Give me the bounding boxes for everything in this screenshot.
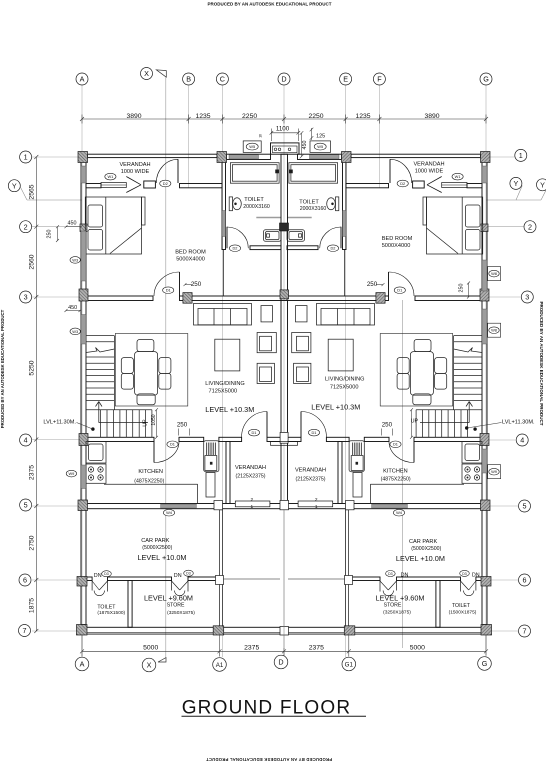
svg-text:1000 WIDE: 1000 WIDE <box>415 168 444 174</box>
counter <box>104 483 198 485</box>
label ellipse texts <box>68 144 496 576</box>
kitchen sink <box>86 442 106 464</box>
center column row4 <box>280 432 288 443</box>
svg-text:(4875X2250): (4875X2250) <box>381 477 411 483</box>
svg-text:D3: D3 <box>186 572 191 576</box>
svg-text:D2: D2 <box>331 246 336 251</box>
svg-text:2565: 2565 <box>29 184 36 199</box>
svg-text:1: 1 <box>519 151 523 160</box>
svg-text:F: F <box>377 75 382 84</box>
svg-text:W8: W8 <box>491 328 497 333</box>
left dimension chain <box>35 157 37 631</box>
svg-text:D1: D1 <box>170 442 175 447</box>
svg-text:X: X <box>147 661 152 670</box>
svg-text:6: 6 <box>523 576 527 585</box>
bedside rail <box>142 197 146 225</box>
svg-text:KITCHEN: KITCHEN <box>138 469 163 475</box>
svg-text:TOILET: TOILET <box>452 603 471 609</box>
svg-text:(1875X1500): (1875X1500) <box>97 610 125 616</box>
svg-text:LEVEL +10.3M: LEVEL +10.3M <box>311 402 360 411</box>
svg-text:A1: A1 <box>216 662 224 669</box>
single sofa B <box>257 363 274 383</box>
svg-text:W5: W5 <box>317 144 323 149</box>
svg-text:250: 250 <box>47 230 53 239</box>
top dimension chain <box>82 118 486 120</box>
svg-text:D1: D1 <box>393 442 398 447</box>
verandah bottom wall seg1 <box>86 184 101 188</box>
svg-text:TOILET: TOILET <box>97 605 116 611</box>
svg-text:3890: 3890 <box>424 113 439 120</box>
svg-text:5000X4000: 5000X4000 <box>176 256 205 262</box>
450 vertical dim right of shaft <box>301 133 303 157</box>
center section line between units <box>283 509 285 648</box>
svg-text:250: 250 <box>191 281 202 288</box>
stair break line <box>86 348 114 353</box>
svg-text:(3250X1875): (3250X1875) <box>167 610 195 616</box>
svg-text:BED ROOM: BED ROOM <box>382 236 413 242</box>
shared center geometry <box>271 143 300 648</box>
svg-text:VERANDAH: VERANDAH <box>413 161 444 167</box>
svg-text:4: 4 <box>24 436 28 445</box>
exterior wall window bars <box>81 166 487 489</box>
svg-text:3: 3 <box>525 293 529 302</box>
125 dim <box>311 128 313 140</box>
verandah bottom wall seg2 <box>180 184 223 188</box>
svg-text:2375: 2375 <box>309 645 324 652</box>
svg-text:G: G <box>482 659 488 668</box>
svg-text:1235: 1235 <box>195 113 210 120</box>
svg-text:G1: G1 <box>345 661 354 668</box>
svg-text:B: B <box>186 75 191 84</box>
left wall label ellipses <box>66 257 469 577</box>
svg-text:7: 7 <box>523 627 527 636</box>
svg-text:LEVEL +9.60M: LEVEL +9.60M <box>375 593 424 602</box>
svg-text:2000X3160: 2000X3160 <box>300 206 327 212</box>
svg-text:5250: 5250 <box>29 360 36 375</box>
svg-text:W3: W3 <box>72 329 78 334</box>
left 450 dim row3 <box>66 310 80 312</box>
svg-text:W1: W1 <box>455 174 461 179</box>
carpark east wall <box>220 510 223 628</box>
svg-text:D3: D3 <box>104 572 109 576</box>
svg-text:BED ROOM: BED ROOM <box>175 250 206 256</box>
door D2 toilet: leaf and arc <box>226 227 228 249</box>
svg-text:PRODUCED BY AN AUTODESK EDUCAT: PRODUCED BY AN AUTODESK EDUCATIONAL PROD… <box>0 309 5 428</box>
bedroom 250 dims at B <box>185 284 192 286</box>
svg-text:250: 250 <box>367 281 378 288</box>
svg-text:(1500X1875): (1500X1875) <box>449 609 477 615</box>
LVL leaders <box>77 423 93 430</box>
svg-text:D3: D3 <box>462 572 467 576</box>
dimension texts <box>29 113 440 651</box>
left 450 dim row2 <box>66 226 81 228</box>
svg-text:2375: 2375 <box>29 465 36 480</box>
svg-text:5000: 5000 <box>410 645 425 652</box>
sofa 3-seat <box>194 304 252 326</box>
svg-text:250: 250 <box>177 421 188 428</box>
svg-text:LEVEL +10.0M: LEVEL +10.0M <box>396 554 445 563</box>
svg-text:UP: UP <box>142 419 148 427</box>
WC <box>229 197 232 211</box>
svg-text:LEVEL +9.60M: LEVEL +9.60M <box>144 593 193 602</box>
towel rail gray <box>256 217 281 219</box>
stairs 1050 dim <box>156 410 158 438</box>
right 250 vertical dim <box>468 283 470 297</box>
step rect verandah <box>235 501 270 507</box>
svg-text:DN: DN <box>174 573 182 579</box>
svg-text:1100: 1100 <box>276 125 290 132</box>
window bars (gray) <box>161 155 259 508</box>
svg-text:A: A <box>80 660 85 669</box>
row leader stubs left <box>32 156 82 158</box>
svg-text:STORE: STORE <box>384 603 402 609</box>
svg-text:E: E <box>343 75 348 84</box>
verandah front wall row1 <box>88 154 218 157</box>
W5 label boxes <box>243 141 330 153</box>
section flag bottom <box>158 658 166 662</box>
svg-text:VERANDAH: VERANDAH <box>119 162 150 168</box>
svg-text:D3: D3 <box>388 572 393 576</box>
svg-text:Y: Y <box>12 181 17 190</box>
svg-text:W5: W5 <box>249 144 255 149</box>
svg-text:1: 1 <box>315 504 318 510</box>
svg-text:LIVING/DINING: LIVING/DINING <box>325 377 364 383</box>
center column row5 <box>280 500 289 509</box>
door D1 verandah (to living) <box>266 412 268 438</box>
svg-text:W1: W1 <box>107 174 113 179</box>
grid bubbles <box>8 68 546 672</box>
svg-text:D2: D2 <box>400 181 405 186</box>
pipe cluster dark <box>280 223 289 231</box>
svg-text:(2125X2375): (2125X2375) <box>296 477 326 483</box>
svg-text:VERANDAH: VERANDAH <box>235 465 266 471</box>
svg-text:18: 18 <box>259 134 263 138</box>
svg-text:W9: W9 <box>68 471 74 476</box>
room labels left unit <box>94 162 270 616</box>
wall stub <box>144 181 156 188</box>
DN door right <box>171 581 173 591</box>
section flag top <box>156 70 166 77</box>
svg-text:DN: DN <box>472 573 480 579</box>
svg-text:LIVING/DINING: LIVING/DINING <box>205 381 244 387</box>
svg-text:7125X5000: 7125X5000 <box>208 389 237 395</box>
svg-text:6: 6 <box>23 576 27 585</box>
toilet west wall <box>222 157 226 250</box>
bathtub <box>264 230 282 242</box>
center party wall lower <box>281 301 288 504</box>
fridge <box>204 441 219 472</box>
Y row leaders <box>21 186 546 201</box>
stair up arrow <box>99 422 148 424</box>
svg-text:D2: D2 <box>233 246 238 251</box>
toilet north wall <box>227 154 271 159</box>
svg-text:TOILET: TOILET <box>244 197 264 203</box>
svg-text:TOILET: TOILET <box>299 200 319 206</box>
stairs lower flight <box>151 410 153 438</box>
svg-text:D1: D1 <box>312 430 317 435</box>
svg-text:Y: Y <box>540 180 545 189</box>
svg-text:1235: 1235 <box>355 113 370 120</box>
svg-text:2: 2 <box>24 222 28 231</box>
UNIT GEOMETRY (left), mirrored for right <box>76 152 284 636</box>
svg-text:LEVEL +10.0M: LEVEL +10.0M <box>137 553 186 562</box>
coffee table <box>215 339 240 371</box>
svg-text:LVL+11.30M.: LVL+11.30M. <box>43 420 76 426</box>
kitchen/verandah divider wall <box>226 442 230 504</box>
svg-text:4: 4 <box>520 436 524 445</box>
svg-text:W4: W4 <box>166 510 173 515</box>
bottom dimension chain <box>82 650 486 652</box>
kitchen stove <box>86 464 106 483</box>
row5 wall <box>86 504 281 509</box>
stair landing <box>86 409 152 411</box>
svg-text:W9: W9 <box>491 469 497 474</box>
svg-text:(5000X2500): (5000X2500) <box>411 546 441 552</box>
door D1 bedroom <box>179 272 181 296</box>
toilet south wall <box>250 246 281 250</box>
left row bubbles <box>20 151 32 163</box>
svg-text:PRODUCED BY AN AUTODESK EDUCAT: PRODUCED BY AN AUTODESK EDUCATIONAL PROD… <box>206 757 332 762</box>
svg-text:GROUND FLOOR: GROUND FLOOR <box>182 698 352 719</box>
W1 arrow symbol <box>126 177 141 185</box>
svg-text:W8: W8 <box>491 271 497 276</box>
room labels right unit <box>295 161 480 615</box>
grid lines <box>32 86 524 658</box>
bed <box>85 197 141 254</box>
svg-text:250: 250 <box>382 421 393 428</box>
dimensions <box>34 115 501 657</box>
svg-text:5: 5 <box>24 501 28 510</box>
furniture <box>85 163 281 504</box>
svg-text:5: 5 <box>523 502 527 511</box>
svg-text:LVL+11.30M.: LVL+11.30M. <box>502 420 535 426</box>
svg-text:2: 2 <box>528 222 532 231</box>
row leader stubs right <box>486 156 515 158</box>
svg-text:(4875X2250): (4875X2250) <box>134 479 164 485</box>
svg-text:2560: 2560 <box>29 254 36 269</box>
svg-text:C: C <box>220 75 225 84</box>
svg-text:D1: D1 <box>397 288 402 293</box>
svg-text:D1: D1 <box>166 288 171 293</box>
right row bubbles <box>515 149 527 161</box>
row6 wall segments <box>81 577 92 581</box>
svg-text:2: 2 <box>250 497 253 503</box>
side table <box>261 306 273 322</box>
dining table <box>115 334 188 407</box>
center column row7 <box>280 627 289 636</box>
svg-text:D: D <box>278 658 283 667</box>
stairs upper flight <box>113 336 115 410</box>
svg-text:CAR PARK: CAR PARK <box>141 538 169 544</box>
svg-text:7: 7 <box>23 626 27 635</box>
left 250 vertical dim <box>57 227 59 241</box>
svg-text:2250: 2250 <box>242 113 257 120</box>
svg-text:(5000X2500): (5000X2500) <box>142 545 172 551</box>
svg-text:LEVEL +10.3M: LEVEL +10.3M <box>205 405 254 414</box>
svg-text:G: G <box>483 75 489 84</box>
row7 wall <box>81 627 281 633</box>
svg-text:X: X <box>144 69 149 78</box>
top grid bubbles <box>76 73 88 85</box>
svg-text:(2125X2375): (2125X2375) <box>236 474 266 480</box>
svg-text:450: 450 <box>68 305 77 311</box>
svg-text:W4: W4 <box>396 510 403 515</box>
plumbing shaft box <box>271 143 300 154</box>
svg-text:PRODUCED BY AN AUTODESK EDUCAT: PRODUCED BY AN AUTODESK EDUCATIONAL PROD… <box>207 2 331 7</box>
svg-text:1000 WIDE: 1000 WIDE <box>121 169 150 175</box>
svg-text:2000X3160: 2000X3160 <box>243 204 270 210</box>
svg-text:2750: 2750 <box>29 535 36 550</box>
svg-text:(3250X1875): (3250X1875) <box>383 610 411 616</box>
svg-text:A: A <box>80 75 85 84</box>
svg-text:D: D <box>281 75 286 84</box>
svg-text:450: 450 <box>302 141 308 150</box>
svg-text:D1: D1 <box>252 430 257 435</box>
svg-text:W3: W3 <box>72 257 78 262</box>
center column row3 <box>280 290 289 299</box>
svg-text:PRODUCED BY AN AUTODESK EDUCAT: PRODUCED BY AN AUTODESK EDUCATIONAL PROD… <box>539 301 544 425</box>
svg-text:1050: 1050 <box>151 414 157 425</box>
svg-text:2: 2 <box>315 497 318 503</box>
svg-text:DN: DN <box>94 573 102 579</box>
door D2 verandah: leaf and arc <box>177 159 179 183</box>
svg-text:D2: D2 <box>163 181 168 186</box>
door D1 kitchen <box>153 442 155 463</box>
window W1 bar <box>101 183 126 188</box>
svg-text:1: 1 <box>24 153 28 162</box>
svg-text:VERANDAH: VERANDAH <box>295 468 326 474</box>
svg-text:KITCHEN: KITCHEN <box>383 469 408 475</box>
hatched columns <box>77 152 227 636</box>
svg-text:UP: UP <box>411 419 419 425</box>
entrance threshold step <box>271 442 298 446</box>
svg-text:125: 125 <box>316 133 325 139</box>
svg-text:450: 450 <box>68 221 77 227</box>
svg-text:7125X5000: 7125X5000 <box>330 384 359 390</box>
section line X left <box>166 77 403 658</box>
svg-text:DN: DN <box>401 573 409 579</box>
right wall label boxes <box>488 267 501 479</box>
lobby divider line <box>222 250 224 297</box>
1100 dim <box>271 132 298 134</box>
svg-text:250: 250 <box>458 284 464 293</box>
svg-text:CAR PARK: CAR PARK <box>409 539 437 545</box>
bottom grid bubbles <box>75 657 89 671</box>
svg-text:1875: 1875 <box>29 598 36 613</box>
svg-text:2250: 2250 <box>308 113 323 120</box>
label ellipses <box>105 173 260 516</box>
left exterior wall <box>81 162 86 625</box>
row4 wall (kitchen/verandah north) <box>86 437 154 441</box>
row3 wall <box>86 296 153 301</box>
DN door left <box>91 581 93 591</box>
center party wall upper <box>281 154 288 296</box>
svg-text:3890: 3890 <box>126 113 141 120</box>
svg-text:STORE: STORE <box>167 603 185 609</box>
svg-text:5000X4000: 5000X4000 <box>382 243 411 249</box>
svg-text:1: 1 <box>250 504 253 510</box>
toilet loft shelf <box>230 163 279 184</box>
svg-text:2375: 2375 <box>244 645 259 652</box>
level texts <box>137 402 444 602</box>
landing dot <box>91 427 94 430</box>
single sofa A <box>257 333 276 353</box>
svg-text:3: 3 <box>24 293 28 302</box>
svg-text:Y: Y <box>514 179 519 188</box>
kitchen 250 dims <box>178 429 180 436</box>
store/toilet divider wall <box>128 581 132 628</box>
svg-text:5000: 5000 <box>143 645 158 652</box>
